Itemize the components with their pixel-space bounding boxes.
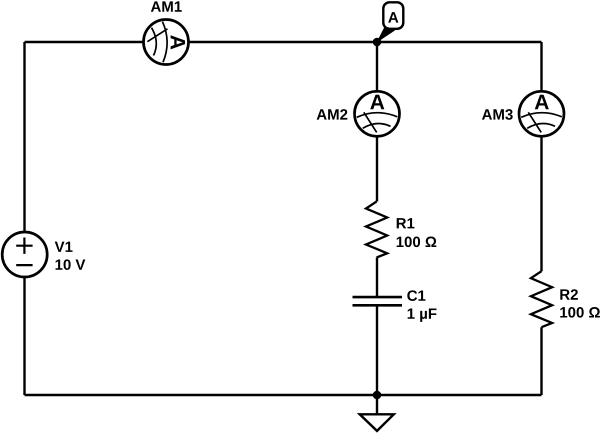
wire R1 to C1 top plate	[376, 258, 378, 298]
node A junction dot	[373, 38, 382, 47]
resistor R1	[366, 202, 436, 258]
wire C1 bottom plate to ground junction	[376, 305, 378, 395]
wire top-right segment (node A junction to right corner)	[377, 41, 542, 43]
ground	[360, 395, 394, 431]
wire left rail top (top corner to V1)	[23, 42, 25, 232]
wire middle branch top (node A to AM2)	[376, 42, 378, 92]
ammeter AM1	[144, 1, 189, 64]
wire bottom-right segment (corner to ground junction)	[377, 394, 542, 396]
wire top-middle segment (AM1 to node A junction)	[188, 41, 377, 43]
voltage source V1	[2, 232, 85, 277]
capacitor C1	[353, 290, 437, 322]
wire R2 to bottom-right corner	[540, 327, 542, 395]
wire AM3 to R2	[540, 135, 542, 271]
ammeter AM2	[317, 91, 400, 136]
wire AM2 to R1	[376, 135, 378, 202]
wire right rail top (corner down to AM3)	[540, 42, 542, 92]
resistor R2	[531, 271, 600, 327]
wire top-left segment (left corner to AM1)	[25, 41, 145, 43]
node A label flag	[378, 2, 404, 41]
wire left rail bottom (V1 to bottom corner)	[23, 277, 25, 395]
ammeter AM3	[482, 91, 564, 136]
wire bottom-left segment (ground junction to left corner)	[25, 394, 378, 396]
ground junction dot	[373, 391, 382, 400]
